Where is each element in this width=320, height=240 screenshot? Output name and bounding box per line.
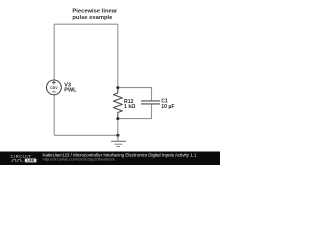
svg-text:Piecewise linear: Piecewise linear: [72, 9, 118, 15]
voltage source V3 circle: [47, 80, 62, 95]
capacitor C1 plates: [141, 101, 160, 104]
label V3 PWL: [64, 83, 77, 94]
svg-text:10 µF: 10 µF: [161, 104, 174, 110]
logo waveform: [11, 159, 23, 161]
node junction top: [116, 86, 119, 89]
label C1 value: [161, 99, 174, 110]
node junction bottom: [116, 117, 119, 120]
svg-text:LAB: LAB: [27, 159, 35, 163]
wire bottom capacitor branch: [118, 104, 152, 119]
svg-text:PWL: PWL: [64, 88, 77, 94]
label R12 value: [124, 99, 135, 110]
wire middle vertical to ground node: [117, 119, 119, 136]
ground symbol: [111, 135, 126, 146]
svg-text:CSV: CSV: [50, 86, 58, 90]
wire left vertical (bottom segment): [53, 95, 55, 135]
svg-text:pulse example: pulse example: [72, 15, 113, 21]
voltage source minus sign: [52, 91, 55, 93]
svg-text:http://circuitlab.com/cmsh2qu2: http://circuitlab.com/cmsh2qu2dfuvd92xk: [43, 157, 115, 162]
voltage source plus sign: [52, 81, 56, 85]
logo LAB box: [25, 159, 37, 163]
node junction ground: [116, 134, 119, 137]
wire top capacitor branch: [118, 88, 152, 101]
title text annotation: [72, 9, 118, 22]
wire left vertical (top segment): [53, 24, 55, 80]
svg-text:1 kΩ: 1 kΩ: [124, 104, 135, 110]
caption bar background: [0, 152, 220, 166]
resistor R12: [113, 88, 122, 119]
wire right vertical: [117, 24, 119, 87]
wire bottom horizontal: [54, 134, 118, 136]
wire top horizontal: [54, 23, 118, 25]
